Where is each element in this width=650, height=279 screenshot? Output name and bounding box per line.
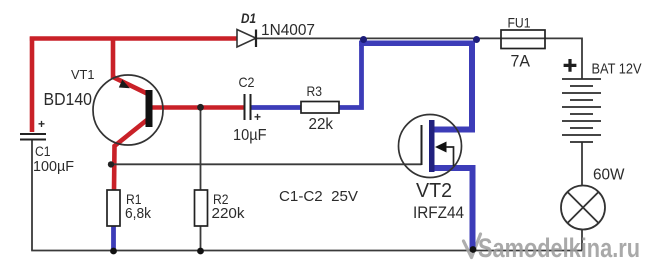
capacitor C1 plates: [20, 134, 46, 140]
node ground R2: [197, 248, 204, 255]
svg-text:7A: 7A: [511, 52, 531, 71]
svg-text:1N4007: 1N4007: [261, 22, 315, 39]
svg-text:+: +: [38, 117, 45, 131]
battery cells: [562, 79, 601, 142]
resistor R1: [107, 190, 120, 226]
node base R2 junction: [197, 104, 204, 111]
transistor VT2 substrate arrow: [435, 142, 447, 153]
svg-text:22k: 22k: [309, 116, 334, 133]
wire diode to fuse and battery: [256, 38, 582, 79]
node ground source: [470, 246, 477, 253]
transistor VT1 emitter arrow: [119, 80, 130, 89]
wire VT1 base to C2: [151, 105, 245, 110]
capacitor C2 plates: [245, 94, 251, 120]
wire left red drop to C1: [30, 37, 35, 133]
transistor VT2 gate bar: [421, 125, 423, 165]
svg-text:C2: C2: [239, 74, 255, 90]
transistor Q1 VT1 circle: [93, 75, 163, 145]
wire VT1 collector lead: [114, 120, 148, 192]
wire top red rail: [30, 36, 237, 41]
diode D1 cathode bar: [255, 30, 257, 48]
svg-text:Samodelkina.ru: Samodelkina.ru: [478, 233, 640, 263]
svg-text:D1: D1: [241, 11, 256, 26]
node top left blue junction: [360, 36, 367, 43]
transistor VT1 base bar: [146, 90, 153, 127]
resistor R3: [301, 102, 339, 114]
svg-text:BD140: BD140: [44, 89, 93, 109]
wire blue R3 to top node: [338, 41, 362, 108]
svg-text:+: +: [254, 110, 261, 124]
wire R2 bottom lead: [200, 226, 202, 251]
resistor R2: [195, 190, 208, 226]
battery BAT plus: [564, 59, 577, 72]
svg-text:60W: 60W: [593, 167, 625, 184]
svg-text:C1: C1: [35, 144, 51, 159]
svg-text:R1: R1: [126, 192, 142, 207]
wire ground rail: [31, 250, 582, 252]
wire blue top horizontal: [359, 40, 474, 46]
svg-text:100µF: 100µF: [33, 159, 74, 175]
svg-text:VT1: VT1: [71, 67, 95, 82]
svg-text:BAT 12V: BAT 12V: [592, 61, 642, 78]
svg-text:IRFZ44: IRFZ44: [413, 204, 464, 222]
transistor VT2 substrate line: [446, 147, 454, 166]
svg-text:FU1: FU1: [508, 15, 531, 31]
wire blue source to ground: [432, 168, 473, 250]
wire blue R1 bottom: [111, 226, 116, 250]
wire VT1 emitter drop: [113, 37, 148, 95]
svg-text:R2: R2: [213, 192, 229, 207]
lamp 60W circle: [561, 186, 605, 230]
svg-text:VT2: VT2: [416, 180, 452, 202]
svg-text:220k: 220k: [212, 206, 246, 222]
svg-text:10µF: 10µF: [233, 127, 267, 144]
fuse FU1: [501, 30, 545, 49]
svg-text:R3: R3: [307, 84, 323, 99]
wire blue drain riser: [432, 41, 472, 130]
transistor VT2 channel bar: [429, 120, 435, 172]
wire base to R2 top: [200, 108, 202, 190]
wire battery to lamp: [581, 142, 583, 186]
wire C1 bottom to ground rail: [31, 140, 33, 251]
svg-text:C1-C2 25V: C1-C2 25V: [279, 188, 358, 205]
transistor VT2 circle: [399, 115, 462, 178]
wire blue C2 to R3: [250, 105, 302, 110]
node top right blue junction: [473, 36, 480, 43]
node ground R1: [110, 248, 117, 255]
diode D1: [237, 30, 256, 48]
svg-text:6,8k: 6,8k: [125, 206, 152, 222]
wire collector to gate (long): [111, 163, 422, 165]
watermark check: [464, 234, 481, 258]
lamp cross: [567, 192, 598, 223]
wire lamp bottom lead: [581, 229, 583, 251]
node collector gate junction: [108, 161, 114, 167]
